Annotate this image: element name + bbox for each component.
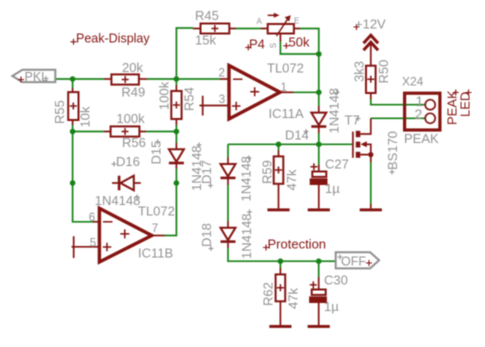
svg-text:BS170: BS170 xyxy=(385,131,400,170)
svg-text:15k: 15k xyxy=(195,32,216,47)
svg-text:IC11B: IC11B xyxy=(138,245,173,260)
svg-text:P4: P4 xyxy=(249,37,265,52)
svg-text:R55: R55 xyxy=(52,100,67,124)
svg-text:S: S xyxy=(269,43,278,48)
svg-text:Peak-Display: Peak-Display xyxy=(76,31,150,45)
svg-text:1µ: 1µ xyxy=(325,181,340,196)
svg-text:TL072: TL072 xyxy=(267,60,304,75)
svg-text:D14: D14 xyxy=(285,128,309,143)
svg-text:20k: 20k xyxy=(122,60,143,75)
svg-text:A: A xyxy=(257,17,263,26)
svg-text:IC11A: IC11A xyxy=(269,106,304,121)
svg-text:1N4148: 1N4148 xyxy=(239,156,254,202)
svg-text:PEAK: PEAK xyxy=(404,131,439,146)
svg-text:Protection: Protection xyxy=(268,237,327,252)
svg-text:TL072: TL072 xyxy=(138,204,175,219)
svg-text:2: 2 xyxy=(415,106,423,122)
svg-text:6: 6 xyxy=(89,212,95,224)
svg-text:1µ: 1µ xyxy=(324,299,339,314)
svg-text:2: 2 xyxy=(219,68,225,80)
svg-text:3: 3 xyxy=(219,94,225,106)
svg-text:R49: R49 xyxy=(121,84,145,99)
svg-text:R54: R54 xyxy=(182,87,197,111)
svg-text:1N4148: 1N4148 xyxy=(95,193,141,208)
svg-text:+12V: +12V xyxy=(355,17,386,32)
svg-text:5: 5 xyxy=(90,237,96,249)
svg-text:C27: C27 xyxy=(325,156,349,171)
svg-text:R59: R59 xyxy=(260,160,275,184)
svg-text:R56: R56 xyxy=(122,135,146,150)
svg-text:100k: 100k xyxy=(116,111,145,126)
svg-text:47k: 47k xyxy=(284,169,299,190)
svg-text:D18: D18 xyxy=(199,223,214,247)
svg-text:47k: 47k xyxy=(286,288,301,309)
svg-text:1: 1 xyxy=(281,82,287,94)
svg-text:LED: LED xyxy=(457,92,472,117)
svg-text:3k3: 3k3 xyxy=(352,61,367,82)
svg-text:R50: R50 xyxy=(376,60,391,84)
svg-text:100k: 100k xyxy=(157,81,172,110)
svg-text:10k: 10k xyxy=(78,106,93,127)
svg-text:X24: X24 xyxy=(402,75,424,89)
svg-text:T7: T7 xyxy=(345,113,360,128)
svg-text:1N4148: 1N4148 xyxy=(239,213,254,259)
svg-text:E: E xyxy=(294,17,299,26)
svg-text:PKL: PKL xyxy=(25,70,49,84)
svg-text:OFF: OFF xyxy=(341,254,366,268)
svg-text:1N4148: 1N4148 xyxy=(327,88,342,134)
svg-text:D15: D15 xyxy=(149,141,164,165)
svg-text:R62: R62 xyxy=(261,282,276,306)
svg-text:50k: 50k xyxy=(289,35,310,50)
svg-text:R45: R45 xyxy=(195,8,219,23)
svg-text:7: 7 xyxy=(152,223,158,235)
svg-text:C30: C30 xyxy=(324,272,348,287)
svg-text:D17: D17 xyxy=(199,160,214,184)
svg-text:D16: D16 xyxy=(116,154,140,169)
